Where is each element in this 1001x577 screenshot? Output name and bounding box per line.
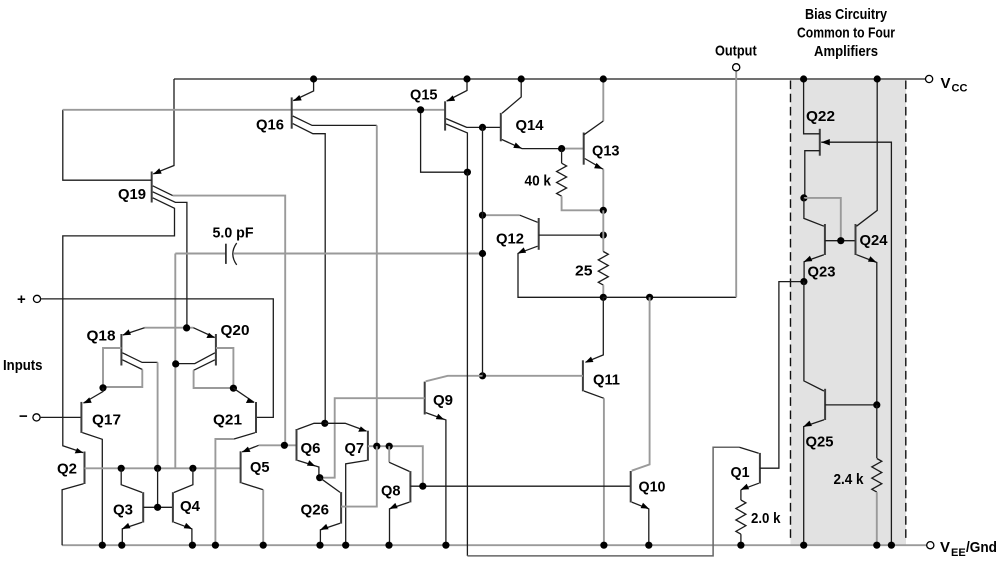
wire Q26 collector diag to dot — [320, 478, 340, 493]
transistor Q24 base bar — [855, 224, 857, 255]
transistor Q25 emitter arrowhead — [803, 421, 812, 427]
wire Q19 collector3 L-path to Q2 emitter — [63, 198, 175, 453]
transistor Q4 emitter arrowhead — [184, 523, 193, 529]
junction dot Q3 emitter at rail — [118, 542, 125, 549]
svg-text:Q9: Q9 — [433, 392, 453, 409]
wire Output riser (grey) — [735, 71, 737, 298]
junction dot Q3/Q4 base link — [154, 504, 161, 511]
junction dot Q22 source / Q23-Q24 bases — [800, 194, 807, 201]
wire Q4 emitter down to rail — [174, 522, 192, 545]
resistor 2.0k zigzag — [740, 490, 742, 500]
wire Q5 collector down to rail — [242, 483, 264, 490]
wire Q19 collector2 to x187 vertical — [153, 192, 187, 327]
transistor Q21 base bar — [255, 402, 257, 433]
wire Q11 base (grey) — [483, 375, 583, 377]
svg-text:Q19: Q19 — [118, 186, 146, 203]
wire Q22 source to bias node — [805, 151, 820, 198]
junction dot Q7 base / Q8 collector riser — [386, 443, 393, 450]
junction dot Q14 collector at rail — [518, 75, 525, 82]
junction dot Q15col1/Q14 base — [479, 124, 486, 131]
wire Q26 emitter down to rail — [320, 523, 340, 545]
junction dot Q22 drain at rail — [800, 75, 807, 82]
svg-text:Q11: Q11 — [593, 372, 620, 389]
junction dot Q3 collector on base bus — [118, 465, 125, 472]
junction dot Q8 emitter at rail — [385, 542, 392, 549]
junction dot Q20 col1 / cap node — [172, 360, 179, 367]
port circle - input — [33, 414, 40, 421]
wire Q18 collector1 drop (grey) — [157, 362, 159, 468]
junction dot Q24 collector at rail — [874, 75, 881, 82]
transistor Q8 base bar — [409, 471, 411, 502]
transistor Q3 emitter arrowhead — [122, 523, 131, 529]
svg-text:Q16: Q16 — [256, 117, 284, 134]
junction dot 2.4k at rail — [873, 542, 880, 549]
transistor Q20 base bar — [215, 334, 217, 366]
transistor Q15 emitter arrowhead — [447, 95, 456, 101]
junction dot Q9 emitter at rail — [442, 542, 449, 549]
transistor Q8 emitter arrowhead — [389, 503, 398, 509]
transistor Q11 collector arrowhead into bar — [585, 357, 594, 363]
junction dot Q4 emitter at rail — [189, 542, 196, 549]
junction dot Q25 base / 2.4k top — [873, 401, 880, 408]
transistor Q24 emitter arrowhead — [868, 256, 877, 262]
svg-text:+: + — [17, 291, 26, 308]
junction dot base bus / Q7 link — [419, 483, 426, 490]
resistor 25 ohm wire and zigzag — [602, 210, 604, 251]
transistor Q3 base bar — [142, 492, 144, 522]
svg-text:CC: CC — [952, 83, 968, 95]
wire Q20 collector1 diag to cap node — [175, 353, 215, 364]
junction dot Q11 emitter at rail — [600, 542, 607, 549]
wire Q15 emitter from rail — [447, 79, 467, 101]
transistor Q6 emitter arrowhead — [307, 460, 316, 466]
wire Q4 collector from bus dot — [174, 468, 193, 492]
junction dot Q11 base node — [479, 372, 486, 379]
transistor Q7 base bar — [367, 431, 369, 461]
transistor Q12 base bar — [538, 218, 540, 250]
transistor Q18 emitter arrowhead — [123, 329, 132, 335]
transistor Q18 base bar — [120, 334, 122, 366]
svg-text:Q23: Q23 — [808, 264, 836, 281]
svg-text:40 k: 40 k — [525, 173, 552, 190]
wire Q17 emitter diag from dot — [83, 388, 103, 403]
transistor Q13 base bar — [583, 133, 585, 165]
wire + input to Q21 base — [40, 299, 273, 418]
bias region shaded box — [791, 80, 907, 545]
wire Q23 tap down to Q25 collector — [804, 282, 824, 391]
junction dot cap right at x482 — [479, 250, 486, 257]
port circle + input — [33, 295, 40, 302]
VCC top rail wire — [174, 78, 926, 80]
wire Q23 emitter down to bias tap — [804, 255, 824, 282]
wire Q25 emitter down to rail — [804, 420, 824, 546]
wire Q8-Q10 base bus — [410, 485, 630, 487]
transistor Q26 base bar — [340, 492, 342, 523]
transistor Q20 emitter arrowhead — [206, 333, 215, 338]
transistor Q9 emitter arrowhead — [436, 414, 445, 420]
junction dot Q25 emitter at rail — [800, 542, 807, 549]
junction dot Q15 emitter at rail — [463, 75, 470, 82]
wire Q3 collector from bus dot — [121, 468, 142, 492]
svg-text:Q8: Q8 — [381, 483, 401, 500]
wire Q8 emitter down to rail — [390, 502, 410, 545]
wire Q16 collector1 vertical down (grey) — [376, 125, 378, 446]
wire Q12 collector from x482 node — [483, 214, 520, 216]
svg-text:Q18: Q18 — [87, 328, 116, 345]
wire Q1 collector loop from Q15 base node — [466, 172, 468, 556]
wire Q13 collector from rail (grey riser) — [602, 79, 604, 121]
svg-text:Q15: Q15 — [410, 87, 438, 104]
transistor Q17 base bar — [80, 402, 82, 433]
svg-text:Q10: Q10 — [639, 479, 666, 496]
junction dot Q7 collector at rail — [342, 542, 349, 549]
junction dot Q16 emitter at rail — [310, 75, 317, 82]
transistor Q25 base bar — [824, 389, 826, 420]
wire Q15 base L-link — [421, 110, 468, 172]
transistor Q1 emitter arrowhead — [741, 484, 750, 490]
wire Q19 collector1 to vertical x285 — [153, 186, 173, 196]
wire Q21 collector down to rail — [234, 433, 255, 439]
wire Q3 emitter down to rail — [122, 522, 142, 545]
svg-text:Q6: Q6 — [301, 440, 321, 457]
junction dot Q17 collector at rail — [99, 542, 106, 549]
wire Q2 collector to rail corner — [62, 484, 83, 546]
wire Q23 collector from source dot — [804, 198, 824, 226]
transistor Q4 base bar — [172, 492, 174, 522]
svg-text:Q1: Q1 — [731, 464, 750, 481]
svg-text:Q24: Q24 — [860, 232, 889, 249]
resistor 2.4k wire and zigzag — [876, 405, 878, 458]
wire Q14 collector from rail — [502, 79, 521, 113]
junction dot Q21 collector at rail — [212, 542, 219, 549]
transistor Q5 base bar — [240, 451, 242, 483]
svg-text:Q12: Q12 — [496, 231, 524, 248]
wire Q9 emitter down to rail — [426, 413, 446, 546]
junction dot Q7 base / Q26 riser — [373, 443, 380, 450]
transistor Q16 emitter arrowhead — [293, 95, 302, 101]
svg-text:Q5: Q5 — [250, 459, 270, 476]
wire Q5 emitter diag and link to Q6 base — [242, 445, 259, 452]
junction dot Q20 base / Q21 emitter — [230, 385, 237, 392]
transistor Q22 gate arrowhead — [821, 139, 830, 145]
svg-text:2.4 k: 2.4 k — [834, 471, 865, 488]
wire Q23/Q24 base riser from source dot (grey) — [804, 198, 841, 241]
wire x482 node vertical (Q15col1 to Q9/Q11) — [482, 127, 484, 375]
wire Q21 emitter diag from dot — [233, 388, 254, 402]
junction dot Q5 collector at rail — [260, 542, 267, 549]
wire Q15 collector2 down to base link — [446, 124, 467, 172]
wire Q10 emitter down to rail — [632, 502, 649, 545]
transistor Q12 emitter arrowhead — [518, 247, 527, 253]
wire Q18/Q20 emitter bus (grey) — [145, 327, 194, 329]
resistor 40k wire and zigzag — [561, 149, 563, 164]
wire Q6 collector diag up to node — [298, 423, 325, 429]
transistor Q9 base bar — [424, 382, 426, 415]
capacitor C1 flat plate — [225, 244, 227, 264]
transistor Q13 emitter arrowhead — [594, 163, 603, 169]
wire Q1 emitter to 2.0k — [741, 483, 759, 490]
wire Q18 collector1 diag to x157 drop — [122, 353, 157, 363]
wire Q10 collector riser to output net (grey) — [632, 297, 650, 470]
wire Q16 collector1 to x377 vertical — [293, 116, 377, 125]
junction dot Q12 collector node — [479, 212, 486, 219]
wire Q12 emitter diag and drop to output net — [518, 246, 603, 297]
wire Q24 collector from rail — [857, 79, 878, 226]
wire Q13 emitter diag down — [585, 159, 604, 170]
capacitor C1 5.0pF right wire (grey) — [234, 253, 483, 255]
junction dot Q12 base — [600, 232, 607, 239]
svg-text:Inputs: Inputs — [3, 357, 43, 374]
junction dot 40k top — [558, 145, 565, 152]
wire Q26 base up to Q7 base node (grey) — [341, 446, 377, 506]
transistor Q10 base bar — [630, 471, 632, 502]
wire Q7 emitter from node — [325, 423, 367, 431]
svg-text:Common to Four: Common to Four — [797, 25, 895, 42]
junction dot Q18/Q20 emitters x187 — [183, 324, 190, 331]
VEE bottom rail wire — [62, 544, 927, 546]
transistor Q19 base bar — [151, 172, 153, 203]
wire Q16 emitter from rail — [293, 79, 313, 101]
wire Q20 base R down to dot (grey) — [216, 348, 234, 388]
wire Q2-Q5 base bus (grey) — [85, 467, 241, 469]
wire Q23-Q24 base link — [825, 240, 856, 242]
svg-text:EE: EE — [951, 547, 966, 559]
svg-text:Amplifiers: Amplifiers — [814, 43, 878, 60]
transistor Q2 base bar — [84, 452, 86, 485]
junction dot Q15 base bus — [417, 106, 424, 113]
capacitor C1 curved plate — [233, 243, 237, 265]
wire Vcc rail left drop to Q19 emitter — [153, 79, 174, 174]
junction dot Q10 emitter at rail — [645, 542, 652, 549]
wire cap left drop to Q20 col1 node (grey) — [174, 254, 176, 469]
transistor Q23 base bar — [824, 224, 826, 255]
transistor Q5 emitter arrowhead — [242, 447, 251, 453]
wire output net to Q10 collector riser — [603, 296, 736, 298]
transistor Q11 base bar — [582, 360, 584, 391]
junction dot 40k bottom — [600, 207, 607, 214]
svg-text:Q26: Q26 — [301, 502, 330, 519]
transistor Q14 base bar — [500, 113, 502, 141]
transistor Q17 emitter arrowhead — [83, 397, 92, 403]
wire Q24 emitter down to Q25 base node — [857, 255, 877, 405]
svg-text:Q25: Q25 — [806, 434, 834, 451]
transistor Q6 base bar — [296, 429, 298, 461]
bias region right dashed border — [905, 81, 907, 542]
svg-text:5.0 pF: 5.0 pF — [213, 225, 254, 242]
junction dot Q5 emitter / Q19col1 / Q6 base — [281, 442, 288, 449]
wire base bus y109 (grey) — [63, 109, 445, 111]
wire Q18 collector2 diag tie to base dot — [122, 360, 142, 370]
transistor Q14 emitter arrowhead — [513, 143, 522, 149]
wire Q11 collector from output net — [586, 297, 604, 362]
wire Q22 gate to rail drop — [821, 142, 891, 545]
junction dot 2.0k at rail — [737, 542, 744, 549]
svg-text:/Gnd: /Gnd — [966, 539, 997, 556]
wire Q9 base L to Q26 node (grey) — [320, 398, 425, 478]
junction dot 25ohm bottom / output net — [600, 294, 607, 301]
wire Q11 emitter down to rail — [584, 391, 604, 398]
transistor Q15 base bar — [444, 101, 446, 130]
svg-text:Q17: Q17 — [92, 412, 121, 429]
junction dot Q18 base / Q17 emitter — [99, 384, 106, 391]
junction dot Q26 emitter at rail — [316, 542, 323, 549]
transistor Q21 emitter arrowhead — [246, 398, 255, 403]
wire Q17 collector down to rail — [82, 433, 102, 546]
port circle VEE — [927, 542, 934, 549]
junction dot bias tap to Q1 base — [800, 278, 807, 285]
svg-text:Q20: Q20 — [221, 322, 250, 339]
svg-text:Q3: Q3 — [113, 502, 133, 519]
svg-text:V: V — [941, 75, 951, 92]
transistor Q2 emitter arrowhead — [75, 448, 84, 453]
wire Q18 base L down to dot (grey) — [103, 348, 121, 388]
junction dot Q3/Q4 bases riser on bus — [154, 465, 161, 472]
wire Q20 emitter diag — [193, 328, 214, 338]
svg-text:25: 25 — [575, 263, 593, 280]
transistor Q26 emitter arrowhead — [320, 524, 329, 530]
junction dot Q15 base-collector tie — [464, 169, 471, 176]
junction dot Q6 emitter / Q26 collector — [316, 474, 323, 481]
transistor Q22 JFET channel bar — [819, 129, 821, 156]
wire Q15 collector1 to Q14 base — [446, 119, 501, 128]
wire Q20 collector2 diag tie to base dot — [194, 360, 215, 371]
svg-text:Q22: Q22 — [806, 108, 835, 125]
junction dot Q4 collector on base bus — [189, 465, 196, 472]
svg-text:Q2: Q2 — [57, 461, 77, 478]
wire Q3/Q4 base link and riser — [143, 506, 173, 508]
wire - input to Q17 base — [40, 416, 81, 418]
transistor Q7 emitter arrowhead — [358, 426, 367, 431]
transistor Q19 emitter arrowhead — [153, 168, 162, 174]
wire Q6 emitter down to dot — [298, 460, 319, 477]
svg-text:2.0 k: 2.0 k — [751, 510, 781, 527]
wire Q18 emitter diag — [123, 328, 145, 335]
junction dot Q6 collector / Q16col2 / Q7 emitter — [321, 420, 328, 427]
svg-text:Q13: Q13 — [592, 143, 620, 160]
transistor Q1 base bar — [759, 453, 761, 484]
wire Q19 base loop to y109 bus — [63, 110, 152, 180]
junction dot Q23/Q24 base link — [837, 237, 844, 244]
svg-text:Q7: Q7 — [345, 440, 365, 457]
wire Q9 collector to x482 node — [426, 376, 483, 382]
svg-text:Bias Circuitry: Bias Circuitry — [805, 6, 888, 23]
transistor Q16 base bar — [291, 97, 293, 128]
capacitor C1 5.0pF left wire (grey) — [175, 253, 226, 255]
svg-text:Output: Output — [715, 43, 757, 60]
svg-text:Q14: Q14 — [516, 117, 545, 134]
wire Q22 drain from rail — [804, 79, 820, 134]
svg-text:Q4: Q4 — [180, 498, 201, 515]
svg-text:V: V — [940, 539, 950, 556]
transistor Q10 emitter arrowhead — [641, 503, 650, 509]
wire Q12 base to 25ohm node — [539, 234, 604, 236]
wire Q1 base riser to bias line — [760, 282, 804, 469]
transistor Q23 emitter arrowhead — [804, 256, 813, 262]
junction dot Q22 gate at Vee rail — [888, 542, 895, 549]
wire Q8 collector from riser dot — [388, 446, 390, 462]
junction dot Q13 collector at rail — [600, 75, 607, 82]
wire Q7 base to Q8 link (grey) — [368, 446, 423, 486]
wire Q16 collector2 to x324 vertical — [293, 124, 326, 424]
svg-text:−: − — [19, 408, 28, 425]
wire Q25 base to 2.4k node — [825, 404, 877, 406]
wire Q7 collector down to rail — [346, 460, 367, 545]
port circle VCC — [926, 75, 933, 82]
junction dot output net / Q10 riser — [646, 294, 653, 301]
svg-text:Q21: Q21 — [213, 412, 242, 429]
wire Q14 emitter diag — [502, 140, 562, 149]
bias region left dashed border — [790, 81, 792, 542]
port circle Output — [733, 64, 740, 71]
